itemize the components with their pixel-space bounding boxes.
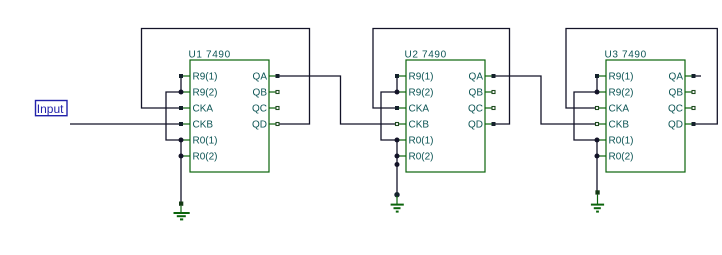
U1 terminal square CKA	[179, 106, 183, 110]
svg-text:CKB: CKB	[193, 120, 214, 131]
svg-text:R0(1): R0(1)	[409, 136, 434, 147]
ground GND3	[591, 190, 604, 211]
U2 terminal hollow square CKB	[396, 123, 399, 126]
U3 terminal hollow square QC	[692, 107, 695, 110]
U3 terminal hollow square CKB	[596, 123, 599, 126]
U2 terminal square QD	[492, 122, 496, 126]
U1 terminal hollow square QC	[276, 107, 279, 110]
svg-text:QC: QC	[668, 104, 683, 115]
ground GND1	[174, 202, 190, 220]
U3 terminal hollow square CKA	[596, 107, 599, 110]
svg-text:QD: QD	[468, 120, 483, 131]
svg-text:QA: QA	[253, 72, 268, 83]
svg-text:U2 7490: U2 7490	[405, 50, 447, 61]
U3 pin stubs left	[597, 76, 606, 156]
U3 terminal square R9(1)	[595, 74, 599, 78]
svg-text:R0(2): R0(2)	[609, 152, 634, 163]
svg-text:U3 7490: U3 7490	[605, 50, 647, 61]
svg-text:R0(1): R0(1)	[609, 136, 634, 147]
wire U2 QA to U3 CKB	[494, 76, 598, 124]
U2 terminal hollow square QB	[492, 91, 495, 94]
svg-text:CKB: CKB	[609, 120, 630, 131]
U3 junction at R0(1)	[595, 138, 600, 143]
U1 junction at R0(2)	[179, 154, 184, 159]
U2 terminal square QA	[492, 74, 496, 78]
IC U1 7490 body	[190, 60, 269, 172]
wire U3 R9(1) to R9(2)	[596, 76, 598, 92]
ground GND2	[391, 192, 404, 212]
svg-text:QA: QA	[469, 72, 484, 83]
U3 junction at R9(2)	[595, 90, 600, 95]
U3 terminal square QD	[692, 122, 696, 126]
svg-text:R0(2): R0(2)	[193, 152, 218, 163]
U2 terminal square CKA	[395, 106, 399, 110]
svg-text:CKB: CKB	[409, 120, 430, 131]
svg-text:Input: Input	[37, 102, 64, 116]
svg-text:CKA: CKA	[609, 104, 630, 115]
U1 terminal square R9(1)	[179, 74, 183, 78]
wire U3 R9(2) jog to R0(1)	[574, 92, 597, 140]
wire U2 R0(2) to ground	[396, 156, 398, 195]
U3 junction at R0(2)	[595, 154, 600, 159]
svg-text:U1 7490: U1 7490	[189, 50, 231, 61]
wire U3 QD feedback to U3 CKA	[566, 29, 717, 125]
wire U1 R9(1) to R9(2)	[180, 76, 182, 92]
svg-text:R9(2): R9(2)	[193, 88, 218, 99]
wire U2 R9(1) to R9(2)	[396, 76, 398, 92]
svg-text:R0(1): R0(1)	[193, 136, 218, 147]
U1 pin stubs right	[269, 76, 278, 124]
svg-text:R9(1): R9(1)	[409, 72, 434, 83]
U1 terminal square QA	[276, 74, 280, 78]
node Input label box	[36, 101, 68, 116]
wire U2 QD feedback to U2 CKA	[373, 29, 510, 125]
wire U2 R0(1) to R0(2)	[396, 140, 398, 156]
U1 terminal square CKB	[179, 122, 183, 126]
U2 junction at R9(2)	[395, 90, 400, 95]
U1 terminal hollow square QB	[276, 91, 279, 94]
svg-text:R9(1): R9(1)	[193, 72, 218, 83]
wire U3 R0(2) to ground	[596, 156, 598, 191]
U2 pin stubs left	[397, 76, 406, 156]
svg-text:R9(2): R9(2)	[609, 88, 634, 99]
svg-text:QD: QD	[252, 120, 267, 131]
U1 junction at R0(1)	[179, 138, 184, 143]
wire U2 R9(2) jog to R0(1)	[381, 92, 397, 140]
U3 terminal square QA	[692, 74, 696, 78]
wire U3 QA output stub	[694, 75, 702, 77]
IC U2 7490 body	[406, 60, 485, 172]
U1 terminal hollow square QD	[276, 123, 279, 126]
wire U1 R0(2) to ground	[180, 156, 182, 202]
IC U3 7490 body	[606, 60, 685, 172]
U3 pin stubs right	[685, 76, 694, 124]
U1 junction at R9(2)	[179, 90, 184, 95]
svg-text:QC: QC	[468, 104, 483, 115]
svg-text:CKA: CKA	[193, 104, 214, 115]
svg-text:R0(2): R0(2)	[409, 152, 434, 163]
U1 pin stubs left	[181, 76, 190, 156]
wire U1 QD feedback to U1 CKA	[142, 29, 310, 125]
svg-text:QB: QB	[469, 88, 484, 99]
svg-text:QC: QC	[252, 104, 267, 115]
svg-text:CKA: CKA	[409, 104, 430, 115]
U2 pin stubs right	[485, 76, 494, 124]
wire U3 R0(1) to R0(2)	[596, 140, 598, 156]
U2 junction at R0(1)	[395, 138, 400, 143]
U2 junction at R0(2)	[395, 154, 400, 159]
U3 terminal hollow square QB	[692, 91, 695, 94]
U2 junction below R0(2)	[395, 162, 400, 167]
svg-text:QB: QB	[253, 88, 268, 99]
wire Input to U1 CKB	[70, 123, 181, 125]
wire U1 R0(1) to R0(2)	[180, 140, 182, 156]
svg-text:R9(1): R9(1)	[609, 72, 634, 83]
svg-text:QB: QB	[669, 88, 684, 99]
svg-text:R9(2): R9(2)	[409, 88, 434, 99]
U2 terminal hollow square QC	[492, 107, 495, 110]
U2 terminal square R9(1)	[395, 74, 399, 78]
wire U1 R9(2) jog to R0(1)	[166, 92, 181, 140]
svg-text:QD: QD	[668, 120, 683, 131]
wire U1 QA to U2 CKB	[278, 76, 398, 124]
svg-text:QA: QA	[669, 72, 684, 83]
